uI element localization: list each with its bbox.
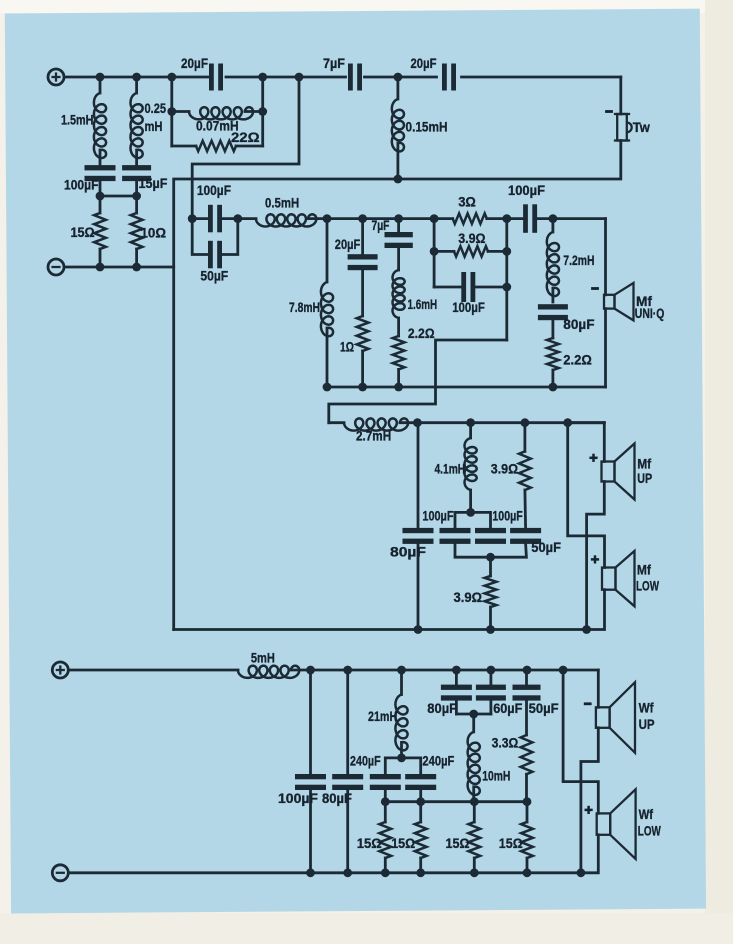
inductor 7.2mH: [547, 219, 595, 302]
svg-text:100µF: 100µF: [64, 178, 99, 193]
wire bottom of input section: [65, 263, 174, 272]
svg-text:mH: mH: [145, 119, 163, 134]
wire mid cap links: [192, 214, 242, 223]
svg-text:15Ω: 15Ω: [499, 836, 523, 851]
wire mid lower rail: [413, 418, 604, 427]
inductor 1.5mH: [61, 77, 106, 166]
terminal − (top return): [48, 259, 64, 275]
wire woofer top rail: [69, 666, 599, 675]
svg-text:1.5mH: 1.5mH: [61, 113, 94, 128]
svg-text:22Ω: 22Ω: [231, 130, 260, 145]
inductor 0.07mH: [189, 107, 253, 133]
svg-text:50µF: 50µF: [531, 540, 561, 555]
svg-text:60µF: 60µF: [493, 701, 522, 716]
svg-text:3.3Ω: 3.3Ω: [492, 736, 519, 751]
capacitor 20µF (top left): [181, 56, 223, 91]
capacitor 7µF: [323, 56, 362, 91]
wire UNI-Q feed: [604, 219, 607, 295]
svg-text:15Ω: 15Ω: [71, 225, 95, 240]
svg-text:2.7mH: 2.7mH: [356, 429, 391, 444]
svg-text:Wf: Wf: [639, 701, 654, 716]
wire below caps: [96, 181, 141, 213]
capacitor 15µF: [122, 165, 167, 191]
wire Wf LOW feed: [563, 670, 598, 813]
resistor 2.2Ω (mid): [393, 326, 435, 387]
resistor 15Ω: [71, 213, 106, 267]
svg-text:LOW: LOW: [636, 579, 659, 594]
svg-text:15Ω: 15Ω: [446, 836, 470, 851]
wire step down to 2.7mH: [329, 340, 507, 423]
svg-text:1Ω: 1Ω: [340, 340, 354, 355]
svg-text:0.15mH: 0.15mH: [406, 120, 448, 135]
wire common return left: [174, 179, 398, 630]
wire bank bottom bus: [455, 543, 526, 561]
svg-text:100µF: 100µF: [508, 183, 545, 198]
inductor 7.8mH: [289, 219, 333, 387]
resistor 15Ω (1): [357, 802, 392, 873]
svg-text:80µF: 80µF: [427, 701, 457, 716]
svg-text:7µF: 7µF: [372, 218, 390, 233]
capacitor 20µF (mid): [335, 219, 378, 316]
svg-text:100µF: 100µF: [278, 791, 318, 806]
svg-text:15Ω: 15Ω: [357, 836, 382, 851]
capacitor 240µF (left): [350, 754, 401, 791]
wire Wf LOW return: [581, 835, 598, 873]
resistor 3.9Ω (mid): [454, 231, 488, 256]
svg-text:UP: UP: [639, 717, 655, 732]
svg-text:3Ω: 3Ω: [458, 194, 476, 209]
svg-text:7.2mH: 7.2mH: [563, 253, 594, 268]
svg-text:0.5mH: 0.5mH: [265, 195, 299, 210]
wire woofer mid bus: [381, 790, 531, 806]
capacitor 20µF (top right): [411, 56, 457, 91]
resistor 15Ω (4): [499, 802, 533, 873]
terminal + (top input): [48, 69, 64, 85]
inductor 2.7mH: [329, 418, 418, 443]
capacitor 60µF: [476, 670, 523, 716]
svg-text:20µF: 20µF: [181, 56, 208, 71]
capacitor 50µF (bank): [510, 528, 561, 555]
inductor 0.15mH: [392, 77, 448, 179]
capacitor 100µF (left): [64, 165, 116, 192]
wire feed to mid section: [192, 77, 299, 219]
wire woofer bottom rail: [69, 868, 586, 877]
capacitor 80µF (woofer): [322, 670, 363, 873]
svg-text:3.9Ω: 3.9Ω: [454, 590, 483, 605]
svg-text:4.1mH: 4.1mH: [435, 462, 466, 477]
capacitor 100µF (woofer): [278, 670, 326, 873]
svg-text:Tw: Tw: [633, 120, 650, 135]
svg-text:2.2Ω: 2.2Ω: [408, 326, 435, 341]
svg-text:240µF: 240µF: [350, 754, 381, 769]
svg-text:80µF: 80µF: [390, 545, 426, 560]
node mid input: [188, 214, 197, 223]
capacitor 80µF (woofer top bank): [427, 670, 472, 716]
svg-text:15µF: 15µF: [139, 176, 168, 191]
wire Mf UP return: [587, 482, 605, 630]
svg-text:50µF: 50µF: [200, 268, 228, 283]
wire 10mH bracket: [456, 710, 491, 732]
capacitor 100µF (mid rail 4th): [508, 183, 545, 233]
svg-text:50µF: 50µF: [529, 701, 559, 716]
capacitor 240µF (right): [405, 754, 454, 791]
speaker Mf UNI-Q: [591, 283, 664, 321]
svg-text:21mH: 21mH: [368, 709, 397, 724]
capacitor 100µF (bank left): [422, 508, 470, 544]
resistor 22Ω: [196, 130, 260, 151]
resistor 10Ω: [131, 213, 166, 267]
resistor 3.9Ω (lower upper): [491, 423, 531, 529]
resistor 2.2Ω (mid right): [547, 338, 592, 387]
svg-text:80µF: 80µF: [563, 317, 594, 332]
capacitor 50µF (woofer): [513, 670, 559, 735]
svg-text:2.2Ω: 2.2Ω: [563, 353, 592, 368]
wire mid bottom rail: [323, 383, 606, 392]
svg-text:100µF: 100µF: [422, 508, 453, 523]
svg-text:5mH: 5mH: [251, 651, 275, 666]
wire Mf LOW feed: [568, 423, 605, 568]
svg-text:0.25: 0.25: [145, 101, 167, 116]
resistor 15Ω (2): [391, 802, 426, 873]
resistor 15Ω (3): [446, 802, 481, 873]
wire Wf UP return: [581, 728, 598, 873]
svg-text:Wf: Wf: [639, 807, 654, 822]
speaker Wf UP: [584, 670, 655, 753]
svg-text:Mf: Mf: [637, 457, 651, 472]
svg-text:100µF: 100µF: [197, 183, 231, 198]
svg-text:240µF: 240µF: [422, 754, 454, 769]
terminal + (woofer input): [52, 662, 68, 678]
svg-text:15Ω: 15Ω: [391, 836, 415, 851]
wire 0.07mH group frame: [167, 77, 267, 146]
svg-text:10Ω: 10Ω: [141, 226, 167, 241]
capacitor 100µF (bank right): [475, 508, 523, 544]
inductor 0.5mH: [238, 195, 327, 226]
wire top rail: [65, 76, 621, 79]
inductor 1.6mH: [393, 270, 438, 336]
svg-text:3.9Ω: 3.9Ω: [458, 231, 485, 246]
resistor 3.3Ω: [492, 735, 533, 802]
wire tweeter feed: [619, 77, 622, 114]
wire mid top rail: [323, 214, 606, 223]
wire 240µF bracket: [385, 754, 420, 775]
svg-text:100µF: 100µF: [452, 300, 485, 315]
svg-text:10mH: 10mH: [482, 769, 510, 784]
svg-text:100µF: 100µF: [492, 508, 522, 523]
capacitor 80µF (bank): [390, 423, 434, 629]
capacitor 7µF (mid): [372, 218, 413, 270]
capacitor 50µF (mid input): [192, 219, 238, 284]
inductor 21mH: [368, 670, 408, 758]
speaker Mf LOW: [591, 551, 659, 606]
speaker Mf UP: [568, 423, 653, 500]
svg-text:UNI·Q: UNI·Q: [635, 306, 665, 321]
resistor 3.9Ω (bank): [454, 557, 497, 629]
svg-text:1.6mH: 1.6mH: [408, 297, 438, 312]
inductor 0.25mH: [131, 77, 167, 166]
junction dots on top rail: [96, 73, 403, 82]
svg-text:UP: UP: [637, 471, 652, 486]
svg-text:3.9Ω: 3.9Ω: [491, 462, 518, 477]
wire mid section bottom rail: [174, 625, 591, 634]
wire 3.9Ω branch frame: [430, 219, 511, 340]
svg-text:20µF: 20µF: [411, 56, 437, 71]
svg-text:7.8mH: 7.8mH: [289, 300, 320, 315]
svg-text:LOW: LOW: [638, 824, 661, 839]
svg-text:7µF: 7µF: [323, 56, 345, 71]
resistor 1Ω: [340, 316, 369, 387]
wire bank bracket top: [455, 508, 491, 528]
inductor 5mH: [238, 651, 299, 678]
resistor 3Ω: [453, 194, 487, 223]
inductor 4.1mH: [435, 423, 477, 513]
capacitor 100µF (mid input): [197, 183, 231, 232]
svg-text:20µF: 20µF: [335, 237, 361, 252]
tweeter Tw: [605, 112, 650, 141]
wire tweeter return: [394, 141, 621, 184]
terminal − (woofer return): [52, 865, 68, 881]
wire UNI-Q return: [604, 309, 607, 387]
capacitor 80µF (mid): [538, 304, 595, 338]
svg-text:Mf: Mf: [637, 562, 651, 577]
svg-text:80µF: 80µF: [322, 791, 352, 806]
speaker Wf LOW: [585, 789, 661, 859]
capacitor 100µF (mid 3rd): [434, 272, 507, 315]
wire Mf LOW return: [587, 590, 605, 630]
inductor 10mH: [468, 732, 511, 802]
